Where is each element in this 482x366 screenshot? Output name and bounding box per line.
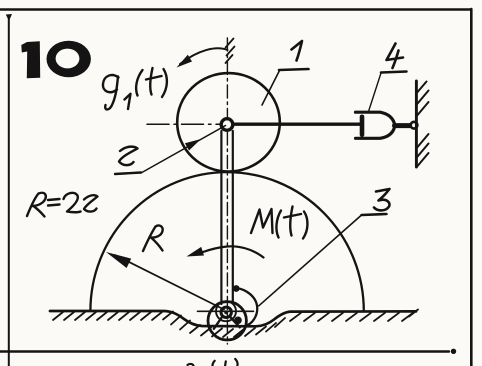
- link rod: [395, 123, 411, 128]
- r leader line: [141, 126, 226, 174]
- problem number 10: [21, 41, 91, 78]
- frame bottom rule: [0, 349, 456, 354]
- ground hatching: [53, 310, 418, 338]
- axis support hatching: [226, 39, 235, 64]
- radius arrow R: [106, 252, 224, 310]
- damper cup: [356, 112, 395, 138]
- frame right rule: [470, 9, 473, 366]
- horizontal rod to damper: [231, 122, 360, 125]
- label R with radius arrow: [143, 226, 163, 251]
- partial caption q2(t) at bottom edge: [188, 359, 238, 366]
- pivot wheel: [208, 302, 246, 340]
- disk 2 (large semicircle R): [90, 172, 363, 311]
- label q1(t): [103, 68, 167, 109]
- label R=2r: [27, 193, 98, 217]
- damper 4: [356, 112, 418, 138]
- hinge: [411, 122, 418, 129]
- label 1 with leader: [262, 41, 309, 105]
- spiral spring 3 outer coil: [237, 288, 258, 326]
- piston bar: [360, 117, 365, 135]
- frame top rule: [0, 8, 471, 11]
- M(t) rotation arrow: [187, 246, 264, 257]
- pivot pin ring: [221, 307, 231, 317]
- q1(t) rotation arrow: [177, 48, 228, 67]
- pivot horizontal centerline: [198, 310, 254, 312]
- label r with leader: [115, 147, 141, 174]
- pulley pin: [221, 119, 233, 131]
- pivot support legs: [214, 317, 240, 329]
- spring attachment blob right: [234, 317, 242, 325]
- vertical axis centerline: [226, 38, 228, 344]
- wall support: [416, 81, 428, 167]
- spring attachment dot top: [233, 285, 240, 292]
- ground: [50, 310, 418, 338]
- label M(t): [251, 207, 307, 239]
- pivot pin dot: [224, 310, 228, 314]
- disk 1 (pulley): [177, 73, 280, 171]
- label 3 with leader: [259, 189, 390, 306]
- frame left rule: [6, 14, 12, 366]
- horizontal centerline: [147, 123, 220, 125]
- pendulum rod: [221, 131, 232, 304]
- spiral spring 3 inner coil: [216, 301, 236, 321]
- label 4 with leader: [369, 44, 407, 112]
